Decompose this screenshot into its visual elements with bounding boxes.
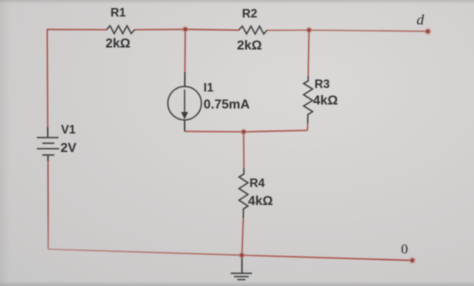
wire top net d [47,29,428,31]
wire middle I1 to R3 [185,130,308,131]
svg-text:R2: R2 [242,7,258,21]
resistor R2 [237,7,267,53]
node 0 [401,243,416,265]
wire R4 bottom [242,218,243,255]
svg-text:4kΩ: 4kΩ [248,193,273,208]
node junction middle R4 [240,128,247,135]
wire R3 bottom [306,124,308,131]
node junction top R3 [306,27,313,34]
svg-text:0.75mA: 0.75mA [204,97,251,112]
wire left branch V1 top [46,30,49,128]
svg-text:d: d [417,13,425,29]
svg-text:2kΩ: 2kΩ [237,38,262,53]
wire R4 top [243,132,245,168]
resistor R1 [106,6,135,51]
svg-text:4kΩ: 4kΩ [313,93,338,108]
node d [417,13,432,36]
node junction ground [238,252,245,259]
svg-text:2kΩ: 2kΩ [106,36,131,51]
wire R3 top [307,30,310,76]
svg-text:I1: I1 [204,81,214,95]
battery V1 [37,123,77,162]
svg-text:R1: R1 [111,6,127,20]
svg-text:R3: R3 [315,77,331,91]
wire bottom net 0 [48,249,412,260]
svg-text:R4: R4 [250,176,266,190]
svg-text:V1: V1 [61,123,76,137]
wire I1 top [184,29,186,72]
current source I1 [168,72,251,131]
resistor R4 [239,168,273,218]
resistor R3 [304,76,338,124]
ground [231,255,252,279]
svg-text:2V: 2V [61,140,77,155]
wire left branch V1 bottom [47,161,49,249]
node junction top I1 [182,26,189,33]
svg-text:0: 0 [401,243,408,258]
